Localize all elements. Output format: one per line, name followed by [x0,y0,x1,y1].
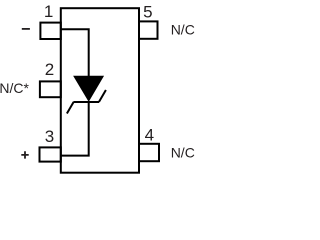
package body U1 [61,8,139,173]
label plus pin3 [21,151,28,158]
pin 5 box [139,21,158,38]
zener left tick [67,102,74,114]
diode D1 triangle [74,76,103,101]
svg-text:N/C*: N/C* [0,80,30,96]
svg-text:1: 1 [44,2,53,21]
pin 1 box [40,23,60,39]
label minus pin1 [22,28,30,30]
wire diode cathode to pin3 [61,101,89,156]
pin 2 box [40,81,61,97]
diode D1 zener cathode bar [73,101,99,103]
svg-text:4: 4 [145,125,154,144]
svg-text:2: 2 [45,60,54,79]
pin 3 box [40,147,61,161]
svg-text:N/C: N/C [171,144,195,160]
svg-text:3: 3 [45,127,54,146]
pin 4 box [139,144,159,161]
svg-text:5: 5 [143,2,152,21]
wire pin1 to diode anode [61,29,89,77]
zener right tick [99,90,106,102]
svg-text:N/C: N/C [171,22,195,38]
